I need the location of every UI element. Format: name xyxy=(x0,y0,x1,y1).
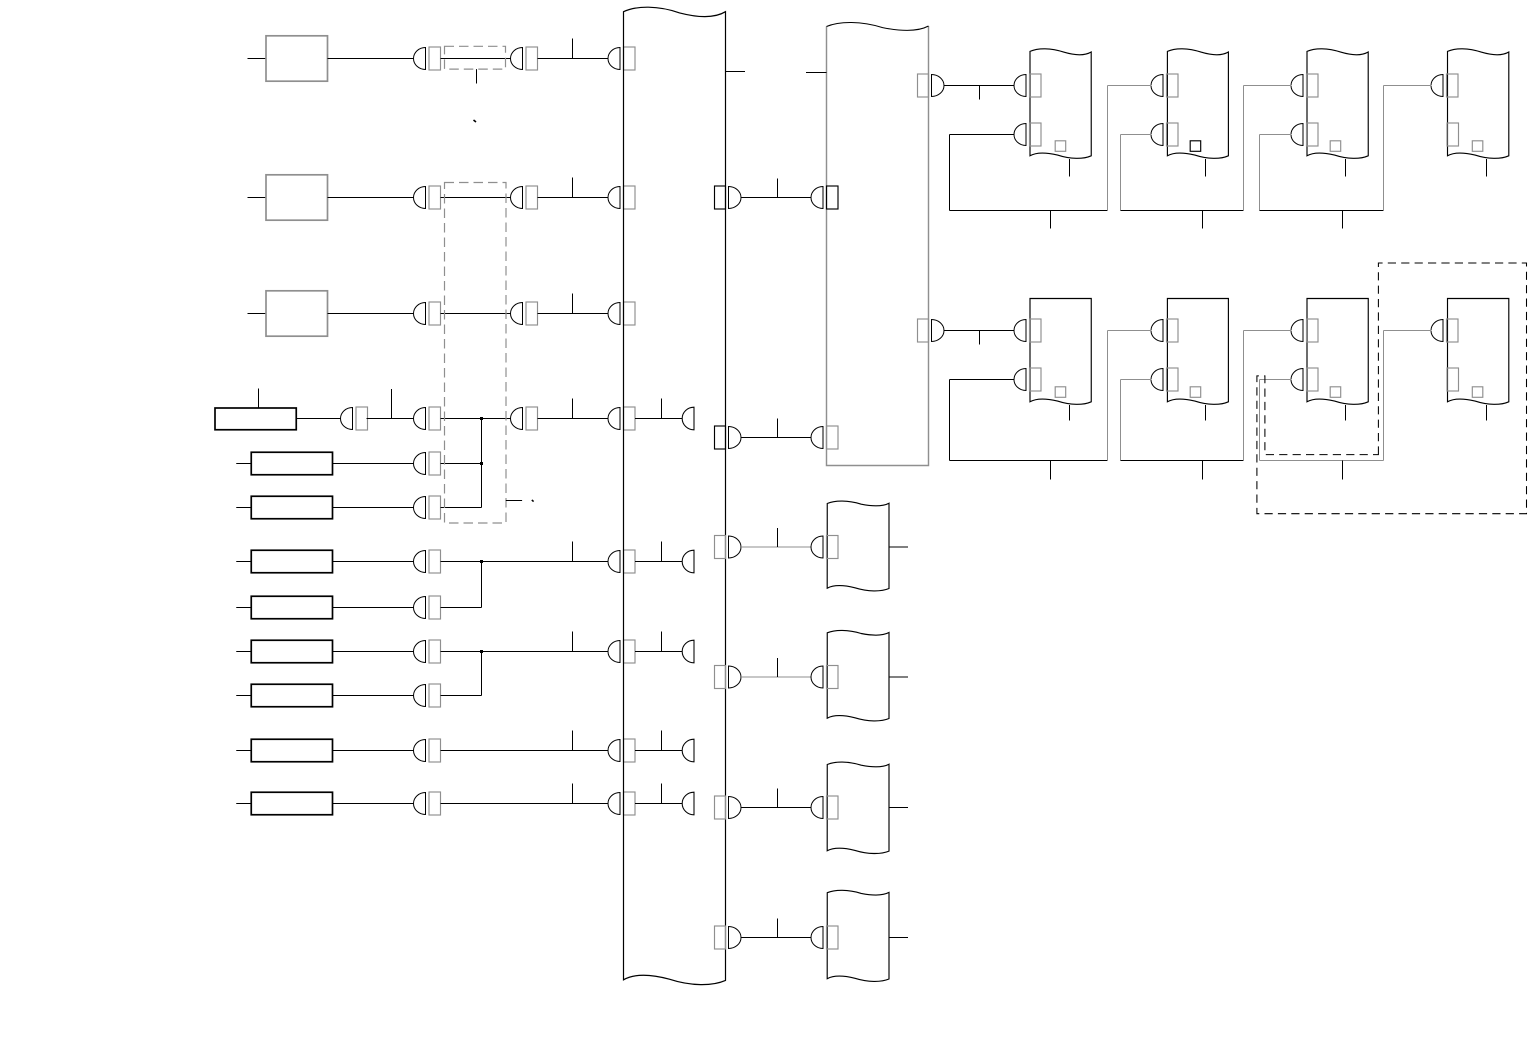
chain 1 cord 2 drop xyxy=(1120,135,1122,211)
panel P1 right port to P2 lower plug xyxy=(729,427,742,449)
tick below dashed enclosure row1 xyxy=(476,69,478,83)
inner label tick row 7 xyxy=(661,542,663,562)
panel P2 left port lower plug xyxy=(811,427,823,449)
chain 1 cord 3 riser xyxy=(1383,86,1385,211)
chain 1 box 3 upper port adapter xyxy=(1307,74,1319,97)
panel P6 left port adapter xyxy=(827,926,839,949)
panel P6 xyxy=(827,890,889,981)
connector pair row 7 col A adapter xyxy=(429,550,441,573)
panel P2 right port chain 1 plug xyxy=(932,75,944,97)
chain 1 cord 2 bottom run xyxy=(1121,210,1244,212)
chain 1 box 2 upper port plug xyxy=(1151,75,1163,97)
panel P1 right port to panel P4 adapter xyxy=(715,666,726,689)
device box row 8 xyxy=(251,596,332,619)
wire row 4 to panel P1 xyxy=(538,418,609,420)
chain 2 cord 3 riser xyxy=(1383,331,1385,461)
panel P5 left port plug xyxy=(811,797,823,819)
panel P1 left port row 4 adapter xyxy=(624,407,636,430)
stub wire row 12 xyxy=(236,803,251,805)
junction riser rows 7-8 xyxy=(481,562,483,608)
junction node row9 xyxy=(480,650,483,653)
chain 1 box 2 lower port adapter xyxy=(1167,123,1179,146)
chain 1 box 1 upper port adapter xyxy=(1030,74,1042,97)
stub on P3 right edge xyxy=(889,546,908,548)
connector pair row 1 col B plug xyxy=(511,48,523,70)
wire row 11 to panel P1 xyxy=(441,750,609,752)
chain 2 cord 2 riser xyxy=(1243,331,1245,461)
connector pair row 4 col A plug xyxy=(414,408,426,430)
panel P6 left port plug xyxy=(811,927,823,949)
junction riser rows 4-6 xyxy=(481,419,483,508)
stub on P5 right edge xyxy=(889,807,908,809)
chain 1 feed cord from P2 xyxy=(944,85,1015,87)
panel P2 left port upper plug xyxy=(811,187,823,209)
wire row 9 to panel P1 xyxy=(441,651,609,653)
stray stub line xyxy=(506,500,522,502)
chain 1 box 1 lower port plug xyxy=(1014,124,1026,146)
stub wire row 6 xyxy=(236,507,251,509)
wire row 10 to junction xyxy=(441,695,482,697)
panel P2 right port chain 2 plug xyxy=(932,320,944,342)
chain 2 cord 2 segment from box 2 xyxy=(1121,379,1152,381)
patch cord P1 to panel P5 xyxy=(741,807,812,809)
stub on P4 right edge xyxy=(889,676,908,678)
chain 2 box 3 tick xyxy=(1345,405,1347,421)
chain 2 box 2 upper port adapter xyxy=(1167,319,1179,342)
panel P1 right port to panel P6 adapter xyxy=(715,926,726,949)
wire row 5 to junction xyxy=(441,463,482,465)
distribution panel P2 top torn edge xyxy=(827,23,929,31)
inner label tick row 4 xyxy=(661,399,663,419)
chain 1 box 3 tick xyxy=(1345,159,1347,177)
connector pair row 6 col A adapter xyxy=(429,496,441,519)
panel P1 right port to P2 upper adapter xyxy=(715,186,726,209)
panel P2 right port chain 1 adapter xyxy=(918,74,929,97)
chain 1 box 3 lower port plug xyxy=(1291,124,1303,146)
stub wire row 9 xyxy=(236,651,251,653)
inner label tick row 12 xyxy=(661,784,663,804)
stub wire row 10 xyxy=(236,695,251,697)
stray mark 2 xyxy=(532,500,534,502)
connector pair row 8 col A adapter xyxy=(429,596,441,619)
device box row 2 (gray) xyxy=(266,175,328,220)
wire row 5 to connector xyxy=(333,463,415,465)
patch cord row 4 (A to B) xyxy=(441,418,512,420)
connector pair row 2 col B adapter xyxy=(526,186,538,209)
chain 1 box 2 tick xyxy=(1205,159,1207,177)
connector pair row 7 col A plug xyxy=(414,551,426,573)
panel P1 right port to P2 upper plug xyxy=(729,187,742,209)
panel P4 left port plug xyxy=(811,666,823,688)
chain 1 box 3 outlet square xyxy=(1330,141,1341,152)
chain 2 cord 1 tick xyxy=(1050,461,1052,480)
chain 2 cord 2 bottom run xyxy=(1121,460,1244,462)
chain 2 box 3 upper port adapter xyxy=(1307,319,1319,342)
panel P1 left port row 7 plug xyxy=(608,551,620,573)
chain 1 cord 3 tick xyxy=(1342,211,1344,229)
connector pair row 3 col B adapter xyxy=(526,302,538,325)
stub wire row 5 xyxy=(236,463,251,465)
patch cord P1 to panel P3 xyxy=(741,546,812,548)
inner wire row 7 in P1 xyxy=(635,561,683,563)
panel P1 left port row 11 plug xyxy=(608,740,620,762)
connector pair row 5 col A plug xyxy=(414,453,426,475)
chain 1 cord 2 top segment xyxy=(1244,85,1292,87)
chain 2 box 2 upper port plug xyxy=(1151,320,1163,342)
chain 2 box 1 outlet square xyxy=(1055,387,1066,398)
label tick row 3 xyxy=(572,294,574,314)
label tick on cord to panel P4 xyxy=(777,658,779,677)
junction riser rows 9-10 xyxy=(481,652,483,696)
panel P1 right port to panel P5 plug xyxy=(729,797,742,819)
patch cord P1 to panel P4 xyxy=(741,676,812,678)
chain 1 box 4 upper port adapter xyxy=(1447,74,1459,97)
inner label tick row 9 xyxy=(661,632,663,652)
chain 1 box 2 outlet square xyxy=(1190,141,1201,152)
chain 2 box 3 lower port adapter xyxy=(1307,368,1319,391)
wire row 12 to panel P1 xyxy=(441,803,609,805)
stub on P6 right edge xyxy=(889,937,908,939)
chain 2 box 1 lower port adapter xyxy=(1030,368,1042,391)
label tick on cord to panel P5 xyxy=(777,789,779,808)
panel P1 left port row 1 plug xyxy=(608,48,620,70)
chain 1 cord 1 top segment xyxy=(1108,85,1152,87)
panel P2 left port upper adapter xyxy=(827,186,839,209)
inner plug row 12 in P1 xyxy=(682,792,694,815)
connector pair row 4 col B plug xyxy=(511,408,523,430)
chain 1 box 4 outlet square xyxy=(1472,141,1483,152)
chain 2 cord 2 top segment xyxy=(1244,330,1292,332)
device box row 1 (gray) xyxy=(266,36,328,81)
patch cord P1 to P2 lower xyxy=(741,437,812,439)
junction node row4 xyxy=(480,417,483,420)
device box row 6 xyxy=(251,496,332,519)
chain 2 cord 3 segment from box 3 xyxy=(1260,379,1292,381)
chain 1 cord 3 segment from box 3 xyxy=(1260,134,1292,136)
chain 1 box 2 lower port plug xyxy=(1151,124,1163,146)
chain 1 box 1 tick xyxy=(1069,159,1071,177)
panel P1 left port row 12 adapter xyxy=(624,792,636,815)
chain 2 box 1 lower port plug xyxy=(1014,369,1026,391)
connector pair row 11 col A adapter xyxy=(429,739,441,762)
chain 2 cord 1 segment from box 1 xyxy=(950,379,1015,381)
dashed enclosure rows 2-6 (gray) xyxy=(445,183,507,524)
device box row 11 xyxy=(251,739,332,762)
panel P4 xyxy=(827,630,889,720)
chain 2 cord 2 drop xyxy=(1120,380,1122,461)
chain 2 wall box 3 xyxy=(1307,299,1368,405)
dashed boundary around chain2 end (black) xyxy=(1257,263,1527,514)
panel P2 right port chain 2 adapter xyxy=(918,319,929,342)
chain 1 cord 3 top segment xyxy=(1384,85,1432,87)
chain 1 cord 2 tick xyxy=(1202,211,1204,229)
panel P1 right port to panel P4 plug xyxy=(729,666,742,688)
panel P1 left port row 2 adapter xyxy=(624,186,636,209)
connector pair row 2 col A plug xyxy=(414,187,426,209)
inner wire row 9 in P1 xyxy=(635,651,683,653)
wire row 1 to panel P1 xyxy=(538,58,609,60)
inner wire row 12 in P1 xyxy=(635,803,683,805)
chain 2 cord 1 bottom run xyxy=(950,460,1108,462)
wire into device box 1 xyxy=(248,58,267,60)
patch cord row 1 (A to B) xyxy=(441,58,512,60)
patch panel P1 (central) xyxy=(624,7,726,984)
chain 2 box 4 tick xyxy=(1486,405,1488,421)
label tick row 12 xyxy=(572,784,574,804)
distribution panel P2 (gray sides and bottom) xyxy=(827,26,929,466)
chain 1 cord 2 segment from box 2 xyxy=(1121,134,1152,136)
chain 2 cord 1 drop xyxy=(949,380,951,461)
chain 2 wall box 4 xyxy=(1448,299,1509,405)
panel P1 left port row 7 adapter xyxy=(624,550,636,573)
wire device box 1 to connector xyxy=(328,58,415,60)
chain 1 box 4 lower adapter xyxy=(1447,123,1459,146)
chain 2 cord 3 top segment xyxy=(1384,330,1432,332)
chain 2 box 1 upper port adapter xyxy=(1030,319,1042,342)
panel P1 right port to panel P3 plug xyxy=(729,536,742,558)
panel P4 left port adapter xyxy=(827,666,839,689)
connector pair row 12 col A plug xyxy=(414,793,426,815)
chain 2 feed cord tick xyxy=(979,331,981,345)
panel P1 left port row 9 adapter xyxy=(624,640,636,663)
chain 2 cord 3 drop xyxy=(1259,380,1261,461)
panel P1 right port to panel P3 adapter xyxy=(715,536,726,559)
panel P1 right port to P2 lower adapter xyxy=(715,426,726,449)
chain 1 wall box 2 xyxy=(1167,49,1228,159)
device box row 7 xyxy=(251,550,332,573)
chain 1 cord 1 bottom run xyxy=(950,210,1108,212)
stub wire into P2 left edge xyxy=(806,72,827,74)
chain 2 cord 3 bottom run xyxy=(1260,460,1384,462)
wire row4 box to connector xyxy=(296,418,341,420)
connector pair row 12 col A adapter xyxy=(429,792,441,815)
stub wire row 11 xyxy=(236,750,251,752)
wire row 10 to connector xyxy=(333,695,415,697)
label tick row 11 xyxy=(572,731,574,751)
panel P1 left port row 1 adapter xyxy=(624,47,636,70)
panel P1 left port row 3 plug xyxy=(608,303,620,325)
panel P1 right port to panel P5 adapter xyxy=(715,796,726,819)
chain 1 wall box 4 xyxy=(1448,49,1509,159)
chain 1 box 1 upper port plug xyxy=(1014,75,1026,97)
junction node row5 xyxy=(480,462,483,465)
inner plug row 11 in P1 xyxy=(682,739,694,762)
connector pair row 10 col A adapter xyxy=(429,684,441,707)
wire row 7 to connector xyxy=(333,561,415,563)
chain 2 box 3 lower port plug xyxy=(1291,369,1303,391)
label tick on cord to panel P3 xyxy=(777,528,779,547)
panel P1 left port row 4 plug xyxy=(608,408,620,430)
label tick on cord to panel P6 xyxy=(777,919,779,938)
panel P3 left port adapter xyxy=(827,536,839,559)
connector pair row 2 col B plug xyxy=(511,187,523,209)
chain 2 box 3 outlet square xyxy=(1330,387,1341,398)
connector pair row 10 col A plug xyxy=(414,685,426,707)
wire row4 to connector column xyxy=(367,418,415,420)
panel P1 left port row 12 plug xyxy=(608,793,620,815)
panel P1 left port row 2 plug xyxy=(608,187,620,209)
chain 1 box 1 outlet square xyxy=(1055,141,1066,152)
device box row 10 xyxy=(251,684,332,707)
connector pair row 1 col A adapter xyxy=(429,47,441,70)
connector pair row4 front adapter xyxy=(356,407,368,430)
chain 2 feed cord from P2 xyxy=(944,330,1015,332)
chain 2 wall box 2 xyxy=(1167,299,1228,405)
panel P5 left port adapter xyxy=(827,796,839,819)
wire row 9 to connector xyxy=(333,651,415,653)
panel P1 right port to panel P6 plug xyxy=(729,927,742,949)
inner wire row 4 in P1 xyxy=(635,418,683,420)
wire row 12 to connector xyxy=(333,803,415,805)
chain 1 wall box 3 xyxy=(1307,49,1368,159)
wire row 3 to panel P1 xyxy=(538,313,609,315)
connector pair row 9 col A plug xyxy=(414,641,426,663)
chain 1 box 3 upper port plug xyxy=(1291,75,1303,97)
connector pair row 4 col B adapter xyxy=(526,407,538,430)
chain 2 box 4 upper port adapter xyxy=(1447,319,1459,342)
chain 1 cord 1 drop xyxy=(949,135,951,211)
wire row 6 to junction xyxy=(441,507,482,509)
chain 1 cord 3 bottom run xyxy=(1260,210,1384,212)
connector pair row 3 col A plug xyxy=(414,303,426,325)
wire row 8 to connector xyxy=(333,607,415,609)
wide device box row 4 xyxy=(215,408,296,430)
chain 2 cord 2 tick xyxy=(1202,461,1204,480)
connector pair row4 front plug xyxy=(341,408,353,430)
connector pair row 3 col A adapter xyxy=(429,302,441,325)
chain 2 box 2 lower port plug xyxy=(1151,369,1163,391)
panel P1 left port row 3 adapter xyxy=(624,302,636,325)
connector pair row 1 col A plug xyxy=(414,48,426,70)
label tick row 9 xyxy=(572,632,574,652)
stub wire row 7 xyxy=(236,561,251,563)
device box row 9 xyxy=(251,640,332,663)
chain 1 cord 1 segment from box 1 xyxy=(950,134,1015,136)
stub wire row 8 xyxy=(236,607,251,609)
device box row 5 xyxy=(251,452,332,475)
wire row 8 to junction xyxy=(441,607,482,609)
connector pair row 6 col A plug xyxy=(414,497,426,519)
device box row 12 xyxy=(251,792,332,815)
panel P3 xyxy=(827,501,889,591)
chain 1 box 4 tick xyxy=(1486,159,1488,177)
chain 2 box 4 outlet square xyxy=(1472,387,1483,398)
label tick row 2 xyxy=(572,178,574,198)
connector pair row 11 col A plug xyxy=(414,740,426,762)
chain 2 box 1 tick xyxy=(1069,405,1071,421)
patch cord row 2 (A to B) xyxy=(441,197,512,199)
chain 2 box 4 upper port plug xyxy=(1431,320,1443,342)
wire device box 3 to connector xyxy=(328,313,415,315)
inner plug row 9 in P1 xyxy=(682,640,694,663)
inner plug row 4 in P1 xyxy=(682,407,694,430)
chain 1 box 3 lower port adapter xyxy=(1307,123,1319,146)
chain 2 box 3 upper port plug xyxy=(1291,320,1303,342)
chain 1 cord 1 riser xyxy=(1107,86,1109,211)
panel P5 xyxy=(827,762,889,853)
label tick on cord to P2 upper xyxy=(777,179,779,198)
connector pair row 8 col A plug xyxy=(414,597,426,619)
patch cord P1 to panel P6 xyxy=(741,937,812,939)
connector pair row 2 col A adapter xyxy=(429,186,441,209)
label tick row4 front segment xyxy=(391,389,393,419)
label tick row 4 xyxy=(572,399,574,419)
wire row 2 to panel P1 xyxy=(538,197,609,199)
stray mark xyxy=(474,120,477,122)
chain 2 cord 1 top segment xyxy=(1108,330,1152,332)
stub on P1 right edge top xyxy=(726,71,746,73)
inner label tick row 11 xyxy=(661,731,663,751)
chain 1 box 1 lower port adapter xyxy=(1030,123,1042,146)
wire row 7 to panel P1 xyxy=(441,561,609,563)
chain 2 cord 1 riser xyxy=(1107,331,1109,461)
wire device box 2 to connector xyxy=(328,197,415,199)
connector pair row 5 col A adapter xyxy=(429,452,441,475)
chain 2 box 2 tick xyxy=(1205,405,1207,421)
patch cord row 3 (A to B) xyxy=(441,313,512,315)
chain 1 cord 1 tick xyxy=(1050,211,1052,229)
chain 1 wall box 1 xyxy=(1030,49,1091,159)
wire into device box 3 xyxy=(248,313,267,315)
wire row 6 to connector xyxy=(333,507,415,509)
chain 2 box 4 lower adapter xyxy=(1447,368,1459,391)
chain 1 feed cord tick xyxy=(979,86,981,100)
chain 2 cord 3 tick xyxy=(1342,461,1344,480)
chain 2 wall box 1 xyxy=(1030,299,1091,405)
label tick above row4 box xyxy=(258,389,260,409)
chain 1 cord 3 drop xyxy=(1259,135,1261,211)
panel P1 left port row 11 adapter xyxy=(624,739,636,762)
dashed enclosure row1 (gray) xyxy=(445,46,506,69)
chain 1 box 2 upper port adapter xyxy=(1167,74,1179,97)
panel P2 left port lower adapter xyxy=(827,426,839,449)
patch cord P1 to P2 upper xyxy=(741,197,812,199)
junction node row7 xyxy=(480,560,483,563)
panel P3 left port plug xyxy=(811,536,823,558)
chain 1 cord 2 riser xyxy=(1243,86,1245,211)
chain 2 box 2 lower port adapter xyxy=(1167,368,1179,391)
wire row 11 to connector xyxy=(333,750,415,752)
inner wire row 11 in P1 xyxy=(635,750,683,752)
label tick row 1 xyxy=(572,39,574,59)
label tick on cord to P2 lower xyxy=(777,419,779,438)
device box row 3 (gray) xyxy=(266,291,328,336)
wire into device box 2 xyxy=(248,197,267,199)
chain 1 box 4 upper port plug xyxy=(1431,75,1443,97)
connector pair row 1 col B adapter xyxy=(526,47,538,70)
connector pair row 3 col B plug xyxy=(511,303,523,325)
label tick row 7 xyxy=(572,542,574,562)
inner plug row 7 in P1 xyxy=(682,550,694,573)
chain 2 box 2 outlet square xyxy=(1190,387,1201,398)
chain 2 box 1 upper port plug xyxy=(1014,320,1026,342)
connector pair row 9 col A adapter xyxy=(429,640,441,663)
connector pair row 4 col A adapter xyxy=(429,407,441,430)
panel P1 left port row 9 plug xyxy=(608,641,620,663)
